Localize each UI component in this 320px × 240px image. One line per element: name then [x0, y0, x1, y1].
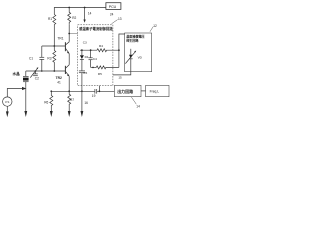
wire TR1 base line: [42, 45, 65, 47]
callout line 12: [150, 27, 153, 32]
box output circuit: [114, 85, 141, 96]
svg-text:14: 14: [136, 104, 140, 108]
wire bottom bus right: [97, 90, 115, 92]
svg-text:R2: R2: [72, 16, 76, 20]
diode D1 varactor: [80, 50, 84, 70]
svg-text:R7: R7: [70, 98, 74, 102]
label 19: [92, 94, 96, 98]
label C2: [35, 77, 39, 81]
label D1: [85, 55, 89, 59]
label C3: [83, 40, 87, 44]
label dashed box title: [79, 26, 113, 31]
svg-text:R3: R3: [47, 56, 51, 60]
svg-text:15: 15: [118, 76, 122, 80]
label R6: [44, 101, 48, 105]
label 14 bottom: [136, 104, 140, 108]
label right box title line1: [126, 34, 145, 39]
svg-text:発生回路: 発生回路: [125, 37, 139, 42]
svg-text:13: 13: [118, 17, 122, 21]
svg-text:R6: R6: [44, 101, 48, 105]
node R4 wire to vertical junction: [118, 49, 120, 51]
wire top supply bus: [54, 8, 106, 15]
capacitor C5: [79, 71, 85, 91]
svg-text:TR1: TR1: [57, 37, 63, 41]
resistor R7: [68, 91, 71, 111]
callout line 14 output: [131, 97, 136, 104]
label VD: [138, 56, 143, 60]
svg-text:V.S: V.S: [5, 100, 9, 104]
svg-text:14: 14: [88, 11, 92, 15]
label R3: [47, 56, 51, 60]
label output box: [117, 88, 133, 94]
node bus TR2 emitter junction: [68, 90, 70, 92]
crystal X1: [23, 71, 29, 111]
label C4: [93, 57, 97, 61]
node bus output junction: [99, 90, 101, 92]
svg-text:R5: R5: [98, 72, 102, 76]
box temperature compensation voltage generator: [125, 33, 152, 72]
label 12: [153, 24, 157, 28]
svg-text:C2: C2: [35, 77, 39, 81]
svg-text:出力回路: 出力回路: [117, 88, 133, 94]
label TR2: [56, 76, 62, 80]
wire TR2 base line: [26, 70, 65, 72]
arrow stub from bus into dashed box: [83, 8, 85, 23]
dashed box temperature sensing circuit: [78, 25, 113, 86]
box load Freq: [146, 85, 169, 96]
wire C4 to R5: [91, 66, 97, 68]
svg-text:12: 12: [153, 24, 157, 28]
svg-text:R4: R4: [99, 44, 103, 48]
label 15: [118, 76, 122, 80]
resistor R3: [53, 46, 56, 71]
wire output box to load: [141, 90, 146, 92]
svg-text:D1: D1: [85, 55, 89, 59]
label 16: [84, 101, 88, 105]
capacitor C4: [89, 50, 93, 67]
ground source: [6, 111, 9, 117]
diode VD varactor in right box: [125, 49, 136, 72]
wire TR2 emitter to bottom bus: [68, 76, 70, 91]
label 13: [118, 17, 122, 21]
capacitor C1: [39, 46, 44, 71]
label PCU: [109, 5, 117, 9]
wire source bottom: [6, 106, 8, 111]
resistor R2: [68, 8, 71, 25]
svg-text:PCU: PCU: [109, 5, 117, 9]
wire dashed box rail: [80, 49, 97, 51]
capacitor C2 trimmer: [30, 67, 38, 77]
label 24: [110, 12, 114, 16]
resistor R5: [96, 66, 119, 69]
wire varactor to dashed box edge: [113, 72, 131, 75]
label R1: [48, 17, 52, 21]
box PCU: [106, 3, 121, 10]
svg-text:16: 16: [84, 101, 88, 105]
node TR2 base node: [53, 70, 55, 72]
node bus left end: [50, 90, 52, 92]
node bus-stub junction: [84, 7, 86, 9]
label R7: [70, 98, 74, 102]
node trimmer junction: [35, 70, 37, 72]
label crystal: [12, 71, 21, 76]
label C5: [83, 71, 87, 75]
ground crystal leg: [24, 111, 27, 117]
svg-text:VD: VD: [138, 56, 143, 60]
svg-text:Freq.L: Freq.L: [150, 90, 160, 94]
wire R2 bottom to TR1 collector: [68, 24, 70, 42]
svg-text:C1: C1: [29, 57, 33, 61]
label TR1: [57, 37, 63, 41]
svg-text:感温素子電流制御回路: 感温素子電流制御回路: [79, 26, 113, 31]
wire collector tap to dashed box: [69, 33, 78, 35]
node TR1 base node: [53, 45, 55, 47]
svg-text:C3: C3: [83, 40, 87, 44]
wire output stub from dashed box bottom: [98, 86, 100, 92]
svg-text:C5: C5: [83, 71, 87, 75]
ground varactor column: [81, 111, 84, 117]
label C1: [29, 57, 33, 61]
transistor TR2: [65, 65, 69, 76]
transistor TR1: [65, 42, 69, 54]
resistor R6: [50, 91, 53, 111]
svg-text:19: 19: [92, 94, 96, 98]
resistor R1: [53, 15, 56, 25]
svg-text:R1: R1: [48, 17, 52, 21]
svg-text:24: 24: [110, 12, 114, 16]
source VS circle: [3, 97, 12, 106]
node collector tap junction: [68, 33, 70, 35]
node rail left junction: [81, 49, 83, 51]
node C1-baseline junction: [41, 70, 43, 72]
label right box title line2: [125, 37, 139, 42]
label R5: [98, 72, 102, 76]
label 14 top: [88, 11, 92, 15]
svg-text:水晶: 水晶: [12, 71, 21, 76]
node rail middle junction: [90, 49, 92, 51]
node bus varactor column junction: [81, 90, 83, 92]
label R2: [72, 16, 76, 20]
wire R1 bottom to TR1 base node: [53, 25, 55, 47]
label 41: [57, 81, 61, 85]
label R4: [99, 44, 103, 48]
callout line 13: [112, 20, 118, 24]
label load box: [150, 90, 160, 94]
wire varactor column to ground: [81, 91, 83, 111]
node bus-R2 junction: [68, 7, 70, 9]
wire right box feed vertical: [119, 34, 125, 67]
svg-text:C4: C4: [93, 57, 97, 61]
ground R6: [50, 111, 53, 117]
capacitor C6 series output: [95, 89, 97, 94]
wire source to crystal node with arrow: [7, 87, 26, 97]
wire TR1 emitter to TR2 collector: [68, 54, 70, 65]
ground R7: [68, 111, 71, 117]
node C4-R5 junction: [92, 67, 94, 69]
wire bottom bus left: [51, 90, 94, 92]
resistor R4: [97, 49, 119, 52]
svg-text:41: 41: [57, 81, 61, 85]
